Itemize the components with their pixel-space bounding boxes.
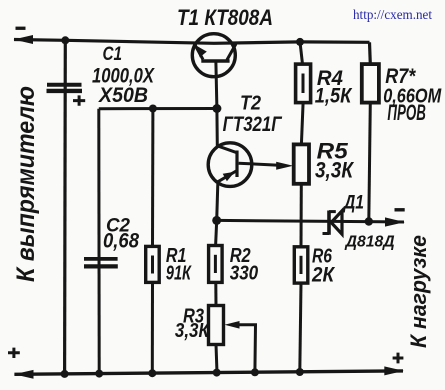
node bottom R1 (148, 369, 156, 377)
R2 value label (230, 245, 259, 285)
wire R3 lower lead (216, 345, 217, 373)
wire emitter/zener horizontal (217, 220, 404, 222)
output minus terminal arrow (385, 217, 405, 226)
wire R4 upper lead (300, 42, 303, 64)
svg-text:Д818Д: Д818Д (344, 234, 395, 251)
node bottom R6 (296, 368, 304, 376)
R4 value label (315, 67, 353, 107)
wire bottom rail (14, 371, 403, 374)
svg-text:3,3К: 3,3К (315, 158, 354, 183)
node T2 emitter junction (212, 216, 221, 225)
wire R6 lower lead (300, 283, 301, 372)
transistor T1 (192, 34, 236, 77)
svg-text:Х50В: Х50В (98, 84, 148, 107)
wire mid horizontal (T1 base net) (99, 107, 217, 110)
plus label bottom-right (393, 353, 404, 364)
resistor R6 (294, 247, 308, 283)
node bottom R3 (213, 369, 221, 377)
svg-text:3,3К: 3,3К (175, 320, 210, 342)
wire R7 upper lead (368, 42, 372, 64)
wire top rail (14, 40, 370, 44)
R3 value label (175, 306, 210, 342)
wire R2 upper lead (216, 220, 217, 245)
minus label top-left (16, 27, 26, 30)
node bottom C1 (61, 370, 69, 378)
resistor R1 (146, 246, 160, 282)
node C1 top (61, 36, 69, 44)
svg-text:1,5К: 1,5К (315, 84, 353, 107)
node R7 bottom junction (365, 217, 373, 225)
R1 value label (166, 245, 192, 285)
wire R4-R5 lead (301, 103, 303, 145)
svg-text:Д1: Д1 (342, 193, 364, 214)
input plus terminal arrow (14, 370, 34, 379)
zener diode D1 (323, 211, 343, 235)
svg-text:2К: 2К (311, 264, 336, 287)
wire R1 lower lead (151, 282, 154, 373)
svg-text:330: 330 (230, 263, 259, 285)
node T1 base junction (212, 104, 221, 113)
plus label bottom-left (8, 348, 20, 358)
wire R5-R6 lead (300, 184, 303, 247)
svg-text:http://cxem.net: http://cxem.net (353, 8, 432, 23)
wire C2 branch vertical (97, 109, 100, 374)
resistor R2 (209, 246, 223, 283)
C1 value label (92, 44, 156, 107)
wire T2 collector vertical (217, 109, 237, 153)
resistor R4 (296, 64, 311, 103)
wire R2-R3 lead (214, 282, 217, 305)
R3 wiper arm (225, 321, 256, 372)
capacitor C1 (47, 85, 86, 106)
T2 label (223, 93, 283, 136)
R6 value label (311, 246, 336, 287)
output plus terminal arrow (384, 366, 404, 375)
wire T1 base down (216, 63, 217, 109)
transistor T2 (208, 143, 252, 187)
resistor R7 (362, 64, 379, 103)
svg-text:91К: 91К (166, 263, 192, 285)
wire R7 lower lead (369, 103, 371, 222)
svg-text:С1: С1 (103, 44, 123, 65)
svg-text:Т1 КТ808А: Т1 КТ808А (177, 5, 273, 30)
svg-text:ПРОВ: ПРОВ (387, 100, 426, 125)
wire T2 base to R5 wiper (239, 162, 294, 170)
resistor R5 (pot) (294, 144, 309, 183)
wire T2 emitter down (217, 184, 218, 221)
node bottom C2 (95, 370, 103, 378)
C2 value label (103, 216, 139, 253)
input minus terminal arrow (14, 35, 34, 44)
svg-text:ГТ321Г: ГТ321Г (223, 113, 283, 136)
resistor R3 (pot) (209, 306, 224, 345)
wire C1 branch vertical (63, 40, 67, 374)
node R1 top (149, 105, 157, 113)
node R4 top (296, 38, 304, 46)
svg-text:К нагрузке: К нагрузке (406, 235, 431, 348)
svg-text:Т2: Т2 (240, 93, 261, 115)
node bottom R3 wiper (251, 368, 259, 376)
minus label right (395, 208, 405, 211)
wire R1 branch vertical upper (151, 109, 154, 247)
svg-text:К выпрямителю: К выпрямителю (12, 86, 40, 282)
R5 value label (315, 139, 354, 183)
capacitor C2 (84, 259, 118, 267)
R7 value label (383, 65, 442, 125)
svg-text:0,68: 0,68 (103, 230, 139, 253)
